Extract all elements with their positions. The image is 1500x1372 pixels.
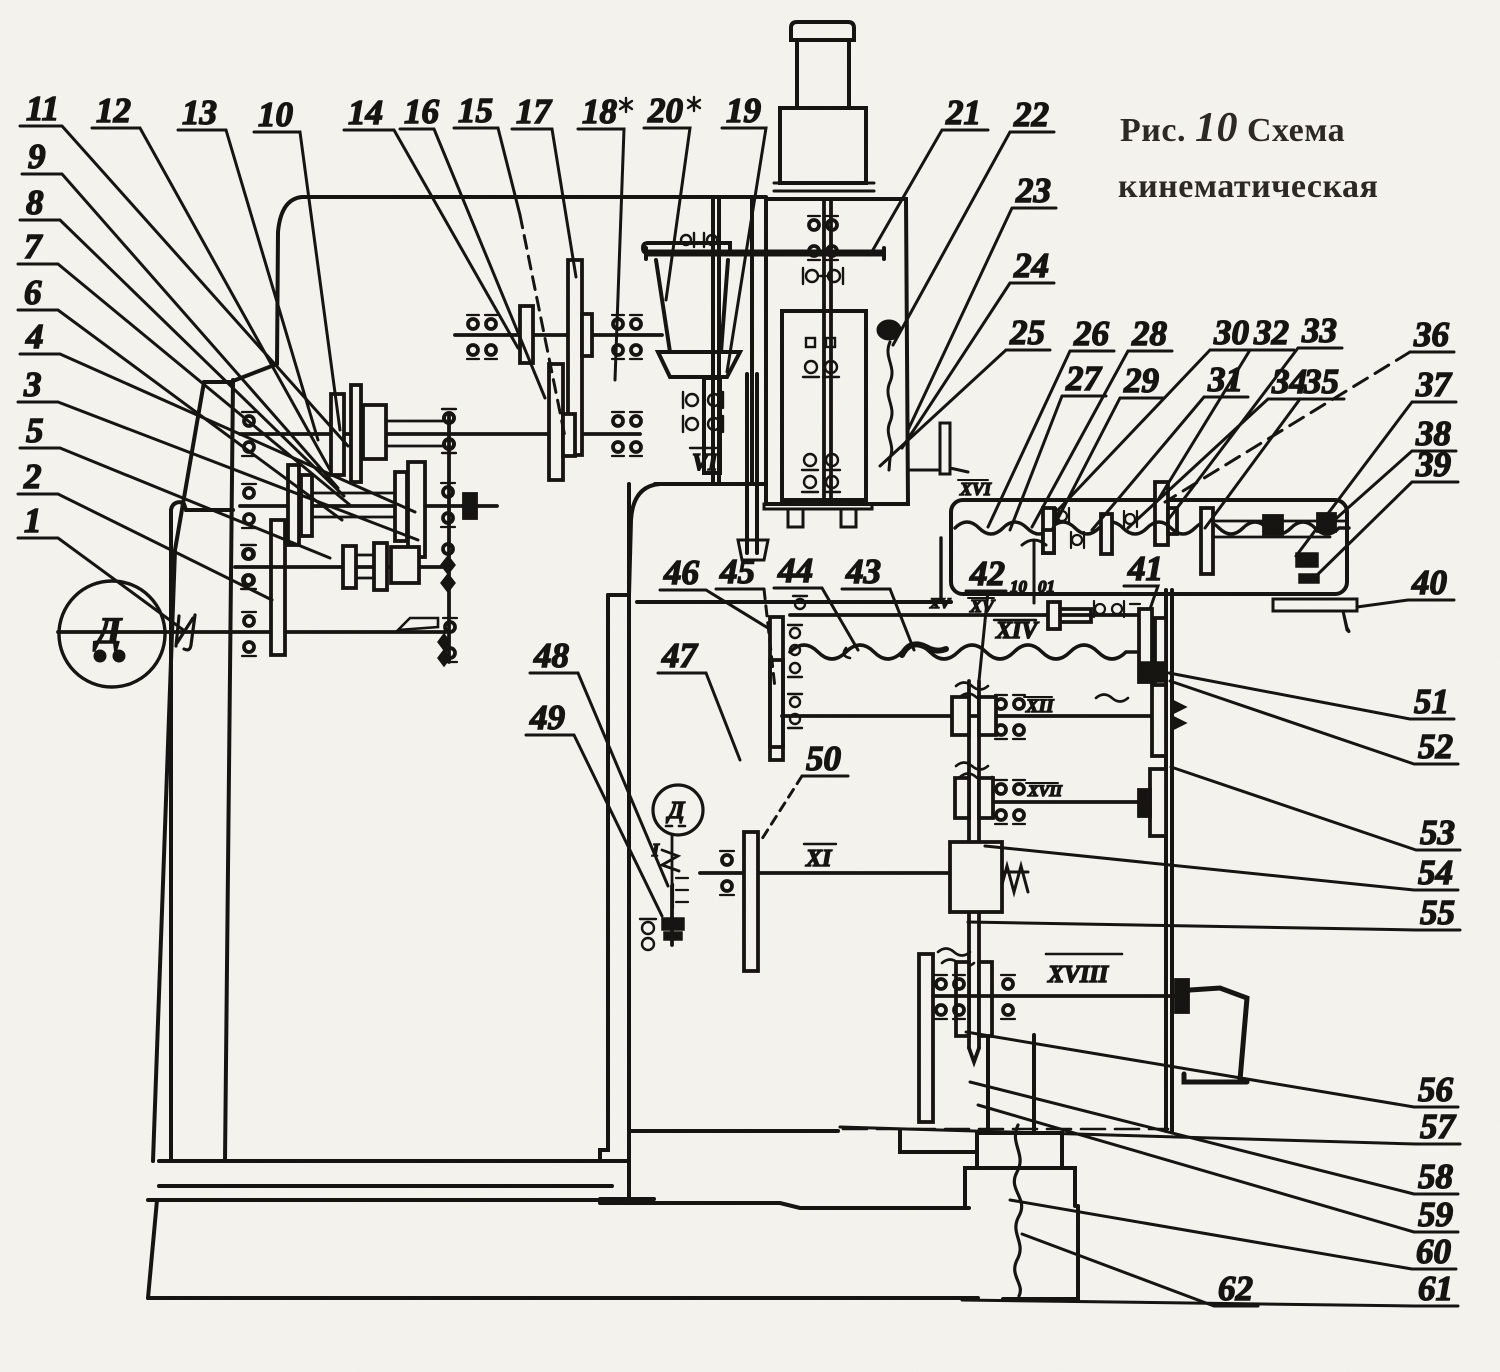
- knee right edge outer: [1164, 590, 1168, 1131]
- shaft XI gear plate: [744, 832, 758, 971]
- rod diamonds: [438, 634, 450, 666]
- callout 1: [18, 501, 186, 632]
- callout 30: [1058, 313, 1254, 510]
- column inner left vertical: [225, 380, 233, 1161]
- svg-text:XII: XII: [1025, 696, 1054, 717]
- callout 62: [1022, 1234, 1258, 1308]
- XVIII end lever: [1184, 988, 1247, 1082]
- shaft XV line: [790, 613, 1139, 617]
- shaft III sleeve: [314, 493, 395, 517]
- head bracket symbols: [803, 268, 843, 284]
- worm spring: [988, 866, 1028, 892]
- head side knob: [878, 321, 900, 339]
- svg-text:49: 49: [529, 698, 565, 737]
- screw top gear: [1155, 482, 1168, 545]
- svg-text:34: 34: [1271, 362, 1307, 401]
- column left step: [233, 364, 277, 381]
- head inner cartridge: [782, 311, 866, 500]
- ledge vertical: [169, 510, 173, 1161]
- bevel arrows XII: [1172, 700, 1186, 730]
- screw telescope: [988, 1035, 1034, 1133]
- shaft IIIb bearing: [242, 545, 256, 589]
- shaft II bearing right: [612, 412, 642, 456]
- svg-text:46: 46: [663, 553, 700, 592]
- central gear block 2: [955, 778, 993, 818]
- svg-text:61: 61: [1418, 1269, 1453, 1308]
- svg-text:Д: Д: [93, 611, 123, 652]
- svg-text:56: 56: [1418, 1070, 1454, 1109]
- svg-text:11: 11: [26, 89, 59, 128]
- callout 9: [22, 137, 338, 488]
- gear plate 46: [770, 617, 783, 747]
- base bottom: [148, 1298, 1078, 1299]
- break marks XVII: [956, 763, 992, 781]
- break marks XII right: [1096, 695, 1128, 702]
- svg-text:5: 5: [26, 411, 44, 450]
- box lower symbols: [1094, 601, 1140, 617]
- callout 43: [842, 552, 914, 650]
- feed motor zigzag: [662, 835, 679, 886]
- shaft XVII right gear: [1150, 769, 1166, 836]
- svg-text:16: 16: [404, 92, 440, 131]
- svg-text:51: 51: [1414, 682, 1449, 721]
- base top line 2: [159, 1184, 612, 1188]
- label XVII: [1026, 783, 1063, 800]
- shaft IV gears: [549, 364, 563, 480]
- svg-text:2: 2: [23, 457, 42, 496]
- callout 60: [1010, 1200, 1456, 1271]
- svg-text:37: 37: [1415, 365, 1453, 404]
- box right shafts: [1213, 521, 1345, 537]
- shaft XV bearing: [793, 596, 807, 609]
- base pedestal wide step: [965, 1168, 1075, 1206]
- shaft XII bearing: [995, 695, 1025, 739]
- callout 6: [18, 273, 342, 520]
- callout 21: [870, 93, 988, 255]
- shaft II gear a: [331, 394, 344, 475]
- shaft V bearing left: [467, 315, 497, 359]
- box center symbols: [1124, 511, 1137, 527]
- callout 51: [1169, 673, 1454, 721]
- svg-text:19: 19: [726, 91, 761, 130]
- callout 20: [644, 91, 700, 300]
- callout 45: [716, 552, 775, 688]
- svg-text:35: 35: [1303, 362, 1339, 401]
- svg-text:8: 8: [26, 183, 44, 222]
- callout 49: [526, 698, 662, 916]
- shaft II bearing left: [242, 412, 256, 456]
- shaft XVII line: [980, 800, 1166, 804]
- svg-text:32: 32: [1253, 313, 1289, 352]
- callout 33: [1168, 311, 1342, 520]
- shaft XII left gear: [770, 660, 783, 760]
- callout 5: [20, 411, 330, 558]
- box right mech: [1296, 553, 1318, 567]
- svg-text:6: 6: [24, 273, 42, 312]
- svg-text:10: 10: [258, 95, 293, 134]
- callout 47: [658, 636, 740, 760]
- callout 4: [20, 317, 415, 512]
- spindle nose: [738, 540, 768, 560]
- callout 53: [1171, 767, 1460, 852]
- svg-text:28: 28: [1131, 314, 1167, 353]
- box gear a: [1043, 508, 1054, 553]
- motor step block: [780, 108, 866, 183]
- knee strip right: [627, 484, 631, 1199]
- callout 48: [530, 636, 668, 886]
- callout 31: [1092, 360, 1248, 530]
- knee top edge: [637, 600, 951, 604]
- svg-text:22: 22: [1013, 95, 1049, 134]
- shaft V gear stub: [582, 314, 592, 356]
- base pedestal small step: [977, 1133, 1062, 1168]
- shaft IV bearing: [442, 409, 456, 453]
- motor dots: [95, 651, 105, 661]
- knee bottom step: [900, 1131, 977, 1152]
- callout 19: [722, 91, 766, 372]
- under-head shelf: [655, 482, 766, 486]
- callout 24: [902, 246, 1054, 448]
- shaft V bearing right: [612, 315, 642, 359]
- spindle gear plate: [704, 378, 720, 473]
- head guideway vertical 2: [717, 197, 721, 484]
- svg-text:27: 27: [1065, 359, 1103, 398]
- break marks XII: [956, 683, 992, 701]
- callout 35: [1205, 362, 1344, 528]
- shaft XVIII bearings: [935, 975, 965, 1019]
- box mid black nut: [1264, 516, 1282, 534]
- head guideway vertical 3: [750, 199, 754, 484]
- bevel block lower b: [1155, 618, 1166, 685]
- svg-text:44: 44: [777, 551, 813, 590]
- screw squiggle: [1014, 1125, 1021, 1296]
- head gear symbols upper: [808, 216, 838, 260]
- shaft II gear c: [363, 405, 386, 459]
- callout 11: [20, 89, 348, 446]
- callout 54: [985, 846, 1458, 892]
- callout 10: [254, 95, 340, 430]
- svg-text:62: 62: [1218, 1269, 1253, 1308]
- central gear block 1: [952, 697, 996, 735]
- callout 36: [1165, 315, 1454, 502]
- svg-text:кинематическая: кинематическая: [1118, 168, 1378, 205]
- callout 56: [966, 1032, 1458, 1109]
- callout 50: [760, 739, 848, 842]
- box lower gear: [1048, 602, 1060, 629]
- svg-text:25: 25: [1009, 313, 1045, 352]
- shaft III gear d: [408, 462, 425, 557]
- spindle funnel top bar: [643, 243, 730, 253]
- label XIV: [994, 618, 1039, 644]
- callout 39: [1312, 445, 1458, 580]
- callout 46: [660, 553, 768, 628]
- knee strip bottom step: [600, 1197, 654, 1201]
- central vertical shaft: [969, 681, 979, 1048]
- svg-text:15: 15: [458, 91, 493, 130]
- spindle funnel flange: [658, 352, 740, 377]
- shaft I gear: [271, 520, 285, 655]
- svg-text:14: 14: [348, 93, 383, 132]
- base right edge: [1076, 1206, 1080, 1299]
- svg-text:XVI: XVI: [959, 479, 992, 499]
- motor cylinder cap: [791, 22, 854, 40]
- vertical selector rod: [447, 414, 451, 662]
- shaft IIIb sleeve: [356, 555, 374, 578]
- shaft XII right gear: [1152, 682, 1166, 756]
- label XI: [804, 844, 836, 872]
- knee bottom dashed: [843, 1128, 1168, 1131]
- feed box rounded rect: [951, 500, 1347, 594]
- label XVIII: [1046, 954, 1122, 988]
- svg-text:Д: Д: [666, 798, 686, 824]
- rod bearing 1: [442, 409, 456, 453]
- callout 34: [1128, 362, 1312, 528]
- head guideway vertical 1: [711, 197, 715, 484]
- svg-text:23: 23: [1015, 171, 1051, 210]
- box right black nut: [1318, 514, 1335, 531]
- svg-text:26: 26: [1073, 314, 1110, 353]
- callout 28: [1032, 314, 1172, 527]
- rod clutch diamonds: [441, 556, 455, 592]
- callout 57: [840, 1107, 1460, 1146]
- svg-text:43: 43: [845, 552, 881, 591]
- svg-text:47: 47: [661, 636, 699, 675]
- ledge with bump: [171, 502, 233, 510]
- feed box support bar: [1273, 599, 1357, 611]
- head spindle line: [824, 199, 831, 500]
- head side squiggle: [888, 342, 892, 470]
- head bottom plate: [764, 504, 872, 509]
- column right inner vertical: [629, 484, 660, 595]
- central gear block 3: [956, 962, 992, 1036]
- plate 46 lower symbols: [788, 694, 802, 728]
- svg-text:XVIII: XVIII: [1047, 962, 1110, 988]
- callout 41: [1124, 549, 1163, 609]
- vertical gear plate XVIII: [919, 954, 933, 1122]
- svg-text:33: 33: [1301, 311, 1337, 350]
- shaft XI line: [700, 871, 985, 875]
- callout 14: [344, 93, 518, 348]
- wavy shaft XIV: [790, 645, 1138, 659]
- callout 2: [18, 457, 272, 600]
- bevel block lower: [1139, 609, 1152, 682]
- callout 12: [92, 91, 330, 470]
- knee strip top: [608, 593, 629, 597]
- support bar drip: [1343, 611, 1349, 632]
- rod bearing 3: [443, 618, 457, 662]
- motor flange lines: [772, 183, 876, 199]
- svg-text:17: 17: [516, 92, 553, 131]
- svg-text:39: 39: [1415, 445, 1451, 484]
- shaft IIIb line: [235, 565, 448, 569]
- shaft IIIb gear a: [343, 546, 356, 588]
- svg-text:3: 3: [23, 365, 42, 404]
- base top line 3: [148, 1198, 612, 1202]
- motor cylinder body: [797, 40, 849, 108]
- label XII: [1024, 696, 1054, 717]
- box mid gear: [1101, 514, 1112, 554]
- plate 46 symbols: [788, 625, 802, 677]
- svg-text:10: 10: [1010, 577, 1028, 596]
- svg-text:Рис. 10 Схема: Рис. 10 Схема: [1120, 105, 1345, 151]
- spindle quill: [747, 374, 757, 553]
- box right lower bits: [1299, 574, 1319, 583]
- shaft XII line: [782, 714, 1166, 718]
- callout 8: [20, 183, 344, 496]
- feed motor shaft vertical: [670, 886, 674, 945]
- shaft III gear c: [395, 472, 407, 541]
- svg-text:XV: XV: [929, 596, 952, 612]
- shaft II gear b: [351, 385, 361, 482]
- drawbar end caps: [646, 248, 884, 259]
- callout 17: [512, 92, 576, 277]
- callout 25: [880, 313, 1050, 466]
- head block: [766, 199, 908, 504]
- svg-text:29: 29: [1123, 361, 1159, 400]
- base mid line: [600, 1203, 969, 1208]
- shaft IV gear b: [563, 414, 575, 456]
- svg-text:I: I: [651, 840, 660, 860]
- ratchet lever 44 region: [844, 648, 850, 658]
- shaft III clutch symbols: [441, 483, 455, 527]
- head foot left: [788, 509, 803, 527]
- central shaft bottom taper: [969, 1048, 979, 1062]
- svg-text:13: 13: [182, 93, 217, 132]
- svg-text:21: 21: [945, 93, 981, 132]
- knee strip left: [600, 595, 628, 1161]
- feed motor stack symbols: [673, 878, 688, 908]
- svg-text:7: 7: [24, 227, 43, 266]
- callout 22: [893, 95, 1054, 345]
- box lower coupling: [1055, 609, 1091, 622]
- shaft III gear b: [301, 475, 312, 536]
- label XVI: [958, 479, 992, 499]
- svg-text:01: 01: [1038, 577, 1055, 596]
- shaft XVII right black: [1139, 790, 1150, 816]
- head top symbols: [681, 233, 717, 247]
- shaft II line: [240, 432, 640, 436]
- shaft III gear a: [288, 465, 299, 545]
- svg-text:57: 57: [1420, 1107, 1457, 1146]
- main motor circle: [59, 581, 165, 687]
- column top-left rounded corner and left edge: [277, 197, 302, 364]
- spindle bracket symbols: [683, 392, 723, 432]
- knee bottom edge: [629, 1129, 838, 1133]
- callout 13: [178, 93, 318, 440]
- wavy shaft XVI: [955, 522, 1349, 534]
- break marks XVIII: [938, 949, 974, 967]
- callout 38: [1330, 414, 1456, 524]
- head lower symbols: [802, 454, 840, 492]
- svg-text:41: 41: [1127, 549, 1163, 588]
- shaft I motor line: [58, 630, 450, 634]
- shaft IIIb gear b: [374, 543, 387, 590]
- column top edge: [302, 195, 766, 199]
- bearing IIIb left: [241, 545, 255, 589]
- rod clutch circle: [443, 544, 453, 554]
- svg-text:52: 52: [1418, 727, 1453, 766]
- knee right edge inner: [1170, 590, 1174, 1131]
- label VI: [690, 448, 719, 476]
- column outer slanted edge: [153, 382, 204, 1161]
- callout 7: [18, 227, 350, 505]
- base left bevel: [148, 1200, 157, 1298]
- svg-text:XVII: XVII: [1027, 783, 1063, 800]
- shaft V gear a: [520, 306, 533, 363]
- callout 29: [1052, 361, 1164, 530]
- drawbar T handle: [648, 250, 882, 257]
- svg-text:60: 60: [1416, 1232, 1451, 1271]
- svg-text:45: 45: [719, 552, 755, 591]
- screw gear small: [1168, 508, 1177, 534]
- head mid symbols: [803, 338, 839, 377]
- svg-text:VI: VI: [692, 450, 719, 476]
- svg-text:12: 12: [96, 91, 131, 130]
- callout 26: [988, 314, 1114, 527]
- svg-text:36: 36: [1413, 315, 1450, 354]
- column step horizontal: [204, 380, 233, 384]
- shaft I bearing: [242, 612, 256, 656]
- box gear symbols a: [1056, 508, 1084, 548]
- svg-text:1: 1: [24, 501, 42, 540]
- shaft V line: [455, 333, 662, 337]
- feed motor black bits: [662, 918, 684, 940]
- svg-text:XIV: XIV: [995, 618, 1039, 644]
- box right gear tall: [1201, 508, 1213, 574]
- head crank lever: [908, 423, 968, 474]
- feed motor circle: [653, 785, 703, 835]
- callout 37: [1296, 365, 1456, 556]
- shaft III line: [240, 504, 497, 508]
- shaft III clutch block: [464, 494, 476, 518]
- head foot right: [841, 509, 856, 527]
- pawl lever: [398, 618, 438, 630]
- callout 15: [454, 91, 565, 437]
- callout 42: [966, 554, 1006, 681]
- svg-text:55: 55: [1420, 893, 1455, 932]
- svg-text:9: 9: [28, 137, 46, 176]
- svg-text:59: 59: [1418, 1195, 1453, 1234]
- svg-text:24: 24: [1013, 246, 1049, 285]
- svg-text:50: 50: [806, 739, 841, 778]
- clutch I symbol: [176, 615, 195, 650]
- callout 55: [968, 893, 1460, 932]
- svg-text:20: 20: [647, 91, 683, 130]
- callout 32: [1158, 313, 1294, 500]
- svg-text:30: 30: [1213, 313, 1249, 352]
- svg-text:58: 58: [1418, 1157, 1453, 1196]
- callout 18: [578, 92, 632, 380]
- base top line 1: [159, 1159, 612, 1163]
- callout 40: [1357, 563, 1454, 607]
- callout 61: [962, 1269, 1458, 1308]
- bevel black bits: [1141, 662, 1165, 682]
- shaft V long gear: [568, 260, 582, 455]
- shaft III bearing: [242, 484, 256, 528]
- clutch knot 43: [902, 644, 946, 655]
- spindle funnel body: [656, 260, 728, 352]
- shaft XVII bearing: [995, 780, 1025, 824]
- svg-text:4: 4: [25, 317, 44, 356]
- callout 59: [978, 1105, 1458, 1234]
- shaft II sleeve: [386, 421, 443, 446]
- callout 52: [1170, 681, 1458, 766]
- box ratchet: [1022, 540, 1046, 603]
- feed motor bearing: [640, 919, 656, 950]
- svg-text:18: 18: [582, 92, 617, 131]
- svg-text:48: 48: [533, 636, 569, 675]
- svg-text:40: 40: [1411, 563, 1447, 602]
